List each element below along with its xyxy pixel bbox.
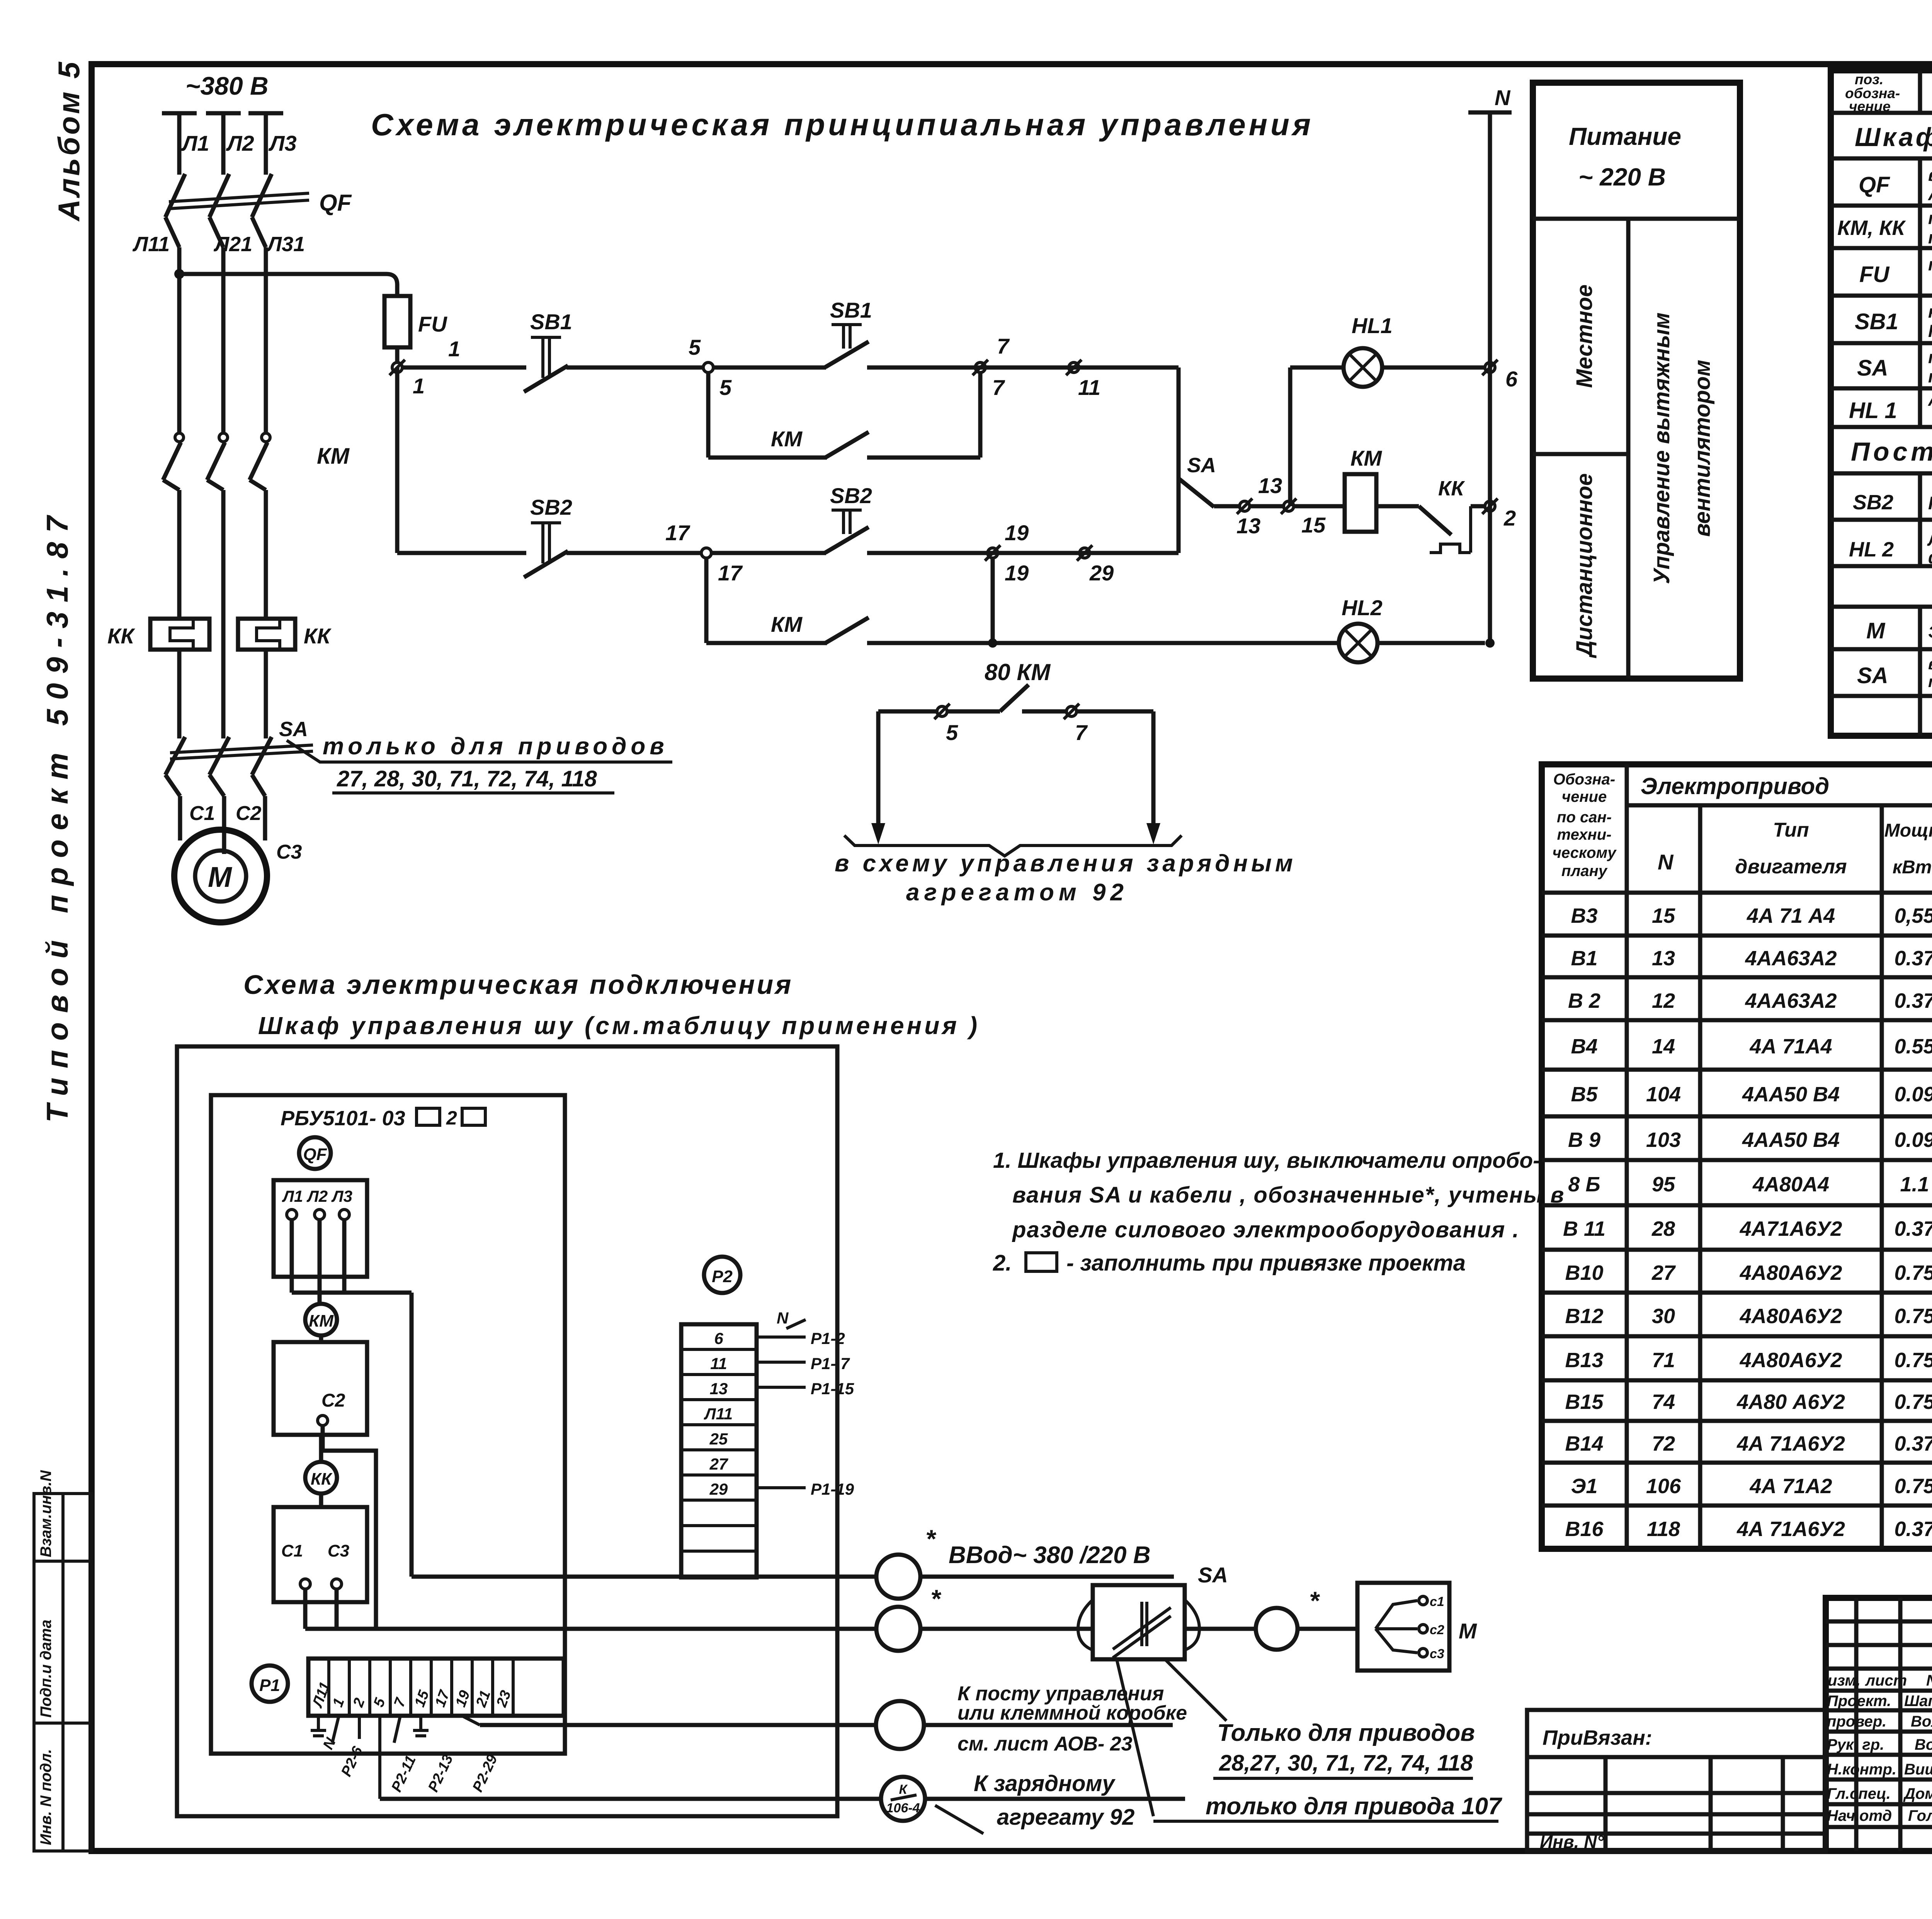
svg-text:В5: В5 <box>1571 1083 1598 1106</box>
svg-text:SA: SA <box>1857 356 1888 381</box>
svg-text:Тип: Тип <box>1773 819 1809 841</box>
svg-text:С1: С1 <box>281 1541 303 1560</box>
svg-text:29: 29 <box>1089 561 1114 585</box>
data col motor type <box>1736 904 1845 1541</box>
svg-text:HL1: HL1 <box>1352 313 1393 338</box>
svg-text:*: * <box>1309 1586 1320 1615</box>
svg-text:4А80А6У2: 4А80А6У2 <box>1740 1261 1842 1284</box>
svg-text:Л3: Л3 <box>268 131 297 155</box>
lamp HL2 <box>1339 624 1485 662</box>
svg-text:В3: В3 <box>1571 904 1597 927</box>
svg-text:4АА50 В4: 4АА50 В4 <box>1742 1083 1840 1106</box>
svg-text:КМ: КМ <box>309 1312 334 1330</box>
svg-text:тепловым реле типа ТРН-10(см.т: тепловым реле типа ТРН-10(см.табл. приме… <box>1928 228 1932 247</box>
svg-text:7: 7 <box>997 334 1010 358</box>
svg-text:1: 1 <box>448 337 460 361</box>
svg-text:4АА63А2: 4АА63А2 <box>1745 989 1837 1012</box>
svg-text:103: 103 <box>1646 1128 1681 1152</box>
svg-text:по сан-: по сан- <box>1557 809 1612 826</box>
svg-text:2: 2 <box>446 1107 457 1129</box>
charger circle K106-4 <box>881 1777 925 1821</box>
svg-text:N: N <box>1495 85 1511 110</box>
wire rail2 segment a <box>397 551 526 555</box>
svg-text:1. Шкафы управления шу, выкл: 1. Шкафы управления шу, выключатели опро… <box>993 1148 1540 1173</box>
node 1 <box>389 337 460 398</box>
neutral N line <box>1468 112 1512 648</box>
svg-text:Мощн.: Мощн. <box>1884 820 1932 841</box>
button SB1 start <box>825 325 869 367</box>
svg-text:кВт.: кВт. <box>1893 857 1932 878</box>
svg-text:В 9: В 9 <box>1568 1128 1600 1152</box>
post wire <box>924 1723 1173 1727</box>
button SB1 stop <box>524 337 568 392</box>
post circle <box>876 1701 924 1749</box>
svg-text:РБУ5101- 03: РБУ5101- 03 <box>281 1107 405 1130</box>
svg-text:КМ: КМ <box>1350 446 1382 470</box>
vvod circle 1 <box>876 1555 920 1599</box>
node 2 <box>1482 498 1516 530</box>
contact KM aux branch1 <box>708 373 980 458</box>
KM circle <box>305 1293 337 1342</box>
svg-text:13: 13 <box>1258 473 1282 498</box>
svg-text:4АА63А2: 4АА63А2 <box>1745 947 1837 970</box>
contact KM aux branch2 <box>706 558 1339 648</box>
svg-text:В15: В15 <box>1565 1390 1604 1414</box>
svg-text:SB1: SB1 <box>1855 309 1898 334</box>
svg-text:14: 14 <box>1652 1035 1675 1058</box>
svg-text:Р1-2: Р1-2 <box>811 1329 845 1347</box>
svg-text:вания SA и кабели , обозначе: вания SA и кабели , обозначенные*, учтен… <box>1012 1182 1565 1208</box>
row SA mesto <box>1857 653 1932 691</box>
data col power <box>1894 904 1932 1541</box>
svg-text:13: 13 <box>710 1380 728 1398</box>
svg-text:0.37: 0.37 <box>1894 1518 1932 1541</box>
svg-text:С3: С3 <box>328 1541 349 1560</box>
svg-text:11: 11 <box>1078 375 1100 400</box>
svg-text:С2: С2 <box>236 802 262 825</box>
svg-text:В10: В10 <box>1565 1261 1603 1284</box>
vvod wire and label <box>412 1524 1174 1577</box>
application table grid <box>1542 764 1932 1549</box>
svg-text:19: 19 <box>1005 521 1029 545</box>
node 5 <box>689 335 732 400</box>
contactor KM main contacts <box>163 433 270 738</box>
lamp HL1 branch <box>1290 367 1344 506</box>
svg-text:Подп.и дата: Подп.и дата <box>37 1620 54 1718</box>
svg-text:Р2: Р2 <box>712 1267 733 1286</box>
svg-text:~ 220 В: ~ 220 В <box>1578 163 1666 191</box>
svg-text:SB2: SB2 <box>1853 491 1893 514</box>
data col N <box>1646 904 1681 1541</box>
svg-text:Схема электрическая подключе: Схема электрическая подключения <box>243 970 793 1000</box>
wire rail1 segment b <box>566 366 703 370</box>
svg-text:25: 25 <box>709 1430 728 1448</box>
svg-text:в схему управления зарядным: в схему управления зарядным <box>835 850 1296 877</box>
button SB2 stop <box>524 523 568 577</box>
svg-text:QF: QF <box>1859 172 1890 197</box>
svg-text:0.37: 0.37 <box>1894 1432 1932 1455</box>
wire phase to SA box <box>305 1627 1093 1631</box>
node 29 <box>1077 545 1114 585</box>
subcircuit brace <box>844 835 1182 856</box>
component table grid <box>1831 70 1932 736</box>
svg-text:1: 1 <box>413 374 425 398</box>
svg-text:4А80А6У2: 4А80А6У2 <box>1740 1305 1842 1328</box>
svg-text:SB2: SB2 <box>530 495 572 519</box>
svg-text:КМ: КМ <box>317 444 350 469</box>
node 17 <box>665 521 743 585</box>
svg-text:Л31: Л31 <box>266 233 305 256</box>
node 13 <box>1236 473 1282 538</box>
svg-text:11: 11 <box>710 1354 727 1373</box>
svg-text:чение: чение <box>1562 788 1607 805</box>
row HL1 <box>1849 390 1932 427</box>
svg-text:К зарядному: К зарядному <box>974 1771 1116 1796</box>
svg-text:4А80 А6У2: 4А80 А6У2 <box>1736 1390 1845 1414</box>
svg-text:Л1: Л1 <box>181 131 209 155</box>
P2 strip stubs <box>757 1309 854 1498</box>
svg-text:Э1: Э1 <box>1571 1475 1598 1498</box>
svg-text:4А80А4: 4А80А4 <box>1752 1173 1829 1196</box>
node 6 <box>1482 360 1518 391</box>
svg-text:В1: В1 <box>1571 947 1597 970</box>
svg-text:Р1-19: Р1-19 <box>811 1480 854 1498</box>
thermal relay KK heater left <box>150 619 209 738</box>
svg-text:В13: В13 <box>1565 1349 1603 1372</box>
svg-text:HL 1: HL 1 <box>1849 398 1897 423</box>
svg-text:Кнопка управления типа КУ, б.: Кнопка управления типа КУ, б.к 1з+ 1р <box>1928 493 1932 513</box>
svg-text:АП50-3МТ (см. таблицу применен: АП50-3МТ (см. таблицу применения ) <box>1928 184 1932 204</box>
svg-text:72: 72 <box>1652 1432 1675 1455</box>
svg-text:SB1: SB1 <box>830 298 872 322</box>
svg-text:Л21: Л21 <box>213 233 252 256</box>
svg-text:95: 95 <box>1652 1173 1675 1196</box>
svg-text:с3: с3 <box>1430 1647 1444 1661</box>
svg-text:КК: КК <box>311 1470 333 1489</box>
svg-text:только для приводов: только для приводов <box>323 733 668 760</box>
svg-text:~380 В: ~380 В <box>185 71 269 100</box>
svg-text:SB1: SB1 <box>530 310 572 334</box>
svg-text:FU: FU <box>1859 262 1890 287</box>
svg-text:N: N <box>1658 850 1674 874</box>
svg-text:0.75: 0.75 <box>1894 1349 1932 1372</box>
svg-text:В14: В14 <box>1565 1432 1603 1455</box>
svg-text:Нач.отд: Нач.отд <box>1827 1807 1892 1824</box>
svg-text:Пост управления пс/ см. табл: Пост управления пс/ см. таблицу применен… <box>1851 437 1932 466</box>
button SB2 start <box>825 510 869 553</box>
leader from SA box <box>1165 1659 1226 1721</box>
charger leader <box>935 1805 983 1834</box>
svg-text:Питание: Питание <box>1569 122 1681 150</box>
wire feed to control circuit <box>174 269 397 296</box>
svg-text:С2: С2 <box>321 1390 345 1411</box>
svg-text:SB2: SB2 <box>830 483 872 508</box>
svg-text:2.: 2. <box>993 1250 1012 1276</box>
svg-text:Альбом 5: Альбом 5 <box>52 60 86 222</box>
left vertical rail join <box>395 367 400 553</box>
svg-text:агрегату 92: агрегату 92 <box>997 1805 1134 1830</box>
terminal box L1L2L3 <box>274 1180 412 1293</box>
pitanie box <box>1533 83 1740 679</box>
svg-text:КК: КК <box>304 624 332 648</box>
svg-text:15: 15 <box>1301 513 1326 537</box>
lamp HL1 <box>1344 348 1485 387</box>
svg-text:Шкаф управления шу (см.таблицу: Шкаф управления шу (см.таблицу применени… <box>258 1012 980 1039</box>
motor connection box M <box>1357 1583 1477 1671</box>
charger wire <box>925 1797 1185 1801</box>
svg-text:4А 71А6У2: 4А 71А6У2 <box>1736 1432 1845 1455</box>
svg-text:7: 7 <box>1075 720 1088 745</box>
svg-text:4А71А6У2: 4А71А6У2 <box>1740 1217 1842 1240</box>
svg-text:5: 5 <box>689 335 701 359</box>
svg-text:*: * <box>925 1524 937 1553</box>
svg-text:0.09: 0.09 <box>1894 1128 1932 1152</box>
svg-text:Гл.спец.: Гл.спец. <box>1827 1785 1891 1802</box>
svg-text:13: 13 <box>1236 514 1260 538</box>
switch SA box <box>1078 1585 1199 1659</box>
svg-text:Инв. N подл.: Инв. N подл. <box>37 1749 54 1845</box>
title block outer <box>1826 1598 1932 1851</box>
wire rail2 segment b <box>566 551 701 555</box>
svg-text:В 2: В 2 <box>1568 989 1600 1012</box>
row FU <box>1859 255 1932 294</box>
svg-text:Голодник: Голодник <box>1908 1807 1932 1824</box>
svg-text:4А 71А4: 4А 71А4 <box>1749 1035 1832 1058</box>
svg-text:Взам.инв.N: Взам.инв.N <box>37 1470 54 1557</box>
right loop vertical <box>1177 367 1181 553</box>
svg-text:с1: с1 <box>1430 1594 1444 1609</box>
wire rail1 segment d <box>867 366 1179 370</box>
svg-text:19: 19 <box>1005 561 1029 585</box>
switch SA power blades <box>165 737 313 854</box>
privyazan box <box>1527 1710 1826 1851</box>
application table row lines group A <box>1542 936 1932 1506</box>
svg-text:6: 6 <box>1505 367 1518 391</box>
svg-text:80 КМ: 80 КМ <box>985 659 1051 685</box>
svg-text:Шкаф управления ШУ (см. та: Шкаф управления ШУ (см. таблицу применен… <box>1855 122 1932 152</box>
subcircuit arrows down <box>871 711 1160 844</box>
svg-text:28,27, 30, 71, 72, 74, 118: 28,27, 30, 71, 72, 74, 118 <box>1219 1751 1473 1776</box>
wire to post circle <box>480 1723 876 1727</box>
box C1 C3 <box>274 1507 367 1629</box>
data col obozn <box>1563 904 1605 1541</box>
svg-text:SA: SA <box>1857 663 1888 688</box>
row SB1 <box>1855 302 1932 341</box>
svg-text:8 Б: 8 Б <box>1568 1173 1600 1196</box>
svg-text:SA: SA <box>1198 1563 1228 1587</box>
svg-text:Электродвигатель(см.таблицу пр: Электродвигатель(см.таблицу применения <box>1928 623 1932 641</box>
svg-text:К: К <box>899 1782 908 1797</box>
svg-text:Волкова: Волкова <box>1915 1736 1932 1753</box>
svg-text:28: 28 <box>1651 1217 1675 1240</box>
contact KK thermal <box>1419 506 1485 553</box>
svg-text:0.55: 0.55 <box>1894 1035 1932 1058</box>
svg-text:па УП 5312 - С86: па УП 5312 - С86 <box>1928 367 1932 386</box>
svg-text:М: М <box>1459 1619 1477 1643</box>
svg-text:27: 27 <box>709 1455 728 1473</box>
svg-text:В16: В16 <box>1565 1518 1604 1541</box>
svg-text:разделе силового электрообо: разделе силового электрооборудования . <box>1012 1217 1520 1242</box>
thermal relay KK heater right <box>238 619 295 738</box>
svg-text:плану: плану <box>1561 863 1608 880</box>
leader diagonal 107 <box>1117 1659 1153 1816</box>
svg-text:HL2: HL2 <box>1342 595 1383 620</box>
wire 13-15 <box>1250 504 1284 509</box>
svg-text:С3: С3 <box>276 841 302 863</box>
svg-text:лист: лист <box>1865 1672 1907 1689</box>
svg-text:ВВод~ 380 /220 В: ВВод~ 380 /220 В <box>949 1542 1151 1569</box>
svg-text:*: * <box>930 1584 942 1613</box>
svg-text:провер.: провер. <box>1827 1713 1886 1730</box>
fuse FU <box>384 296 410 363</box>
QF circle <box>299 1137 331 1169</box>
svg-text:Р1-15: Р1-15 <box>811 1380 854 1398</box>
svg-text:Обозна-: Обозна- <box>1553 771 1615 788</box>
svg-text:КК: КК <box>1438 477 1465 500</box>
phase line L3 <box>248 113 283 433</box>
svg-text:КЕ -011 У3, исполнение 2: КЕ -011 У3, исполнение 2 <box>1928 321 1932 341</box>
svg-text:N докум.: N докум. <box>1926 1672 1932 1689</box>
svg-text:SA: SA <box>1187 454 1216 477</box>
svg-text:Домбровский: Домбровский <box>1903 1785 1932 1802</box>
motor M <box>174 830 267 922</box>
wire rail1 segment a <box>402 366 526 370</box>
svg-text:12: 12 <box>1652 989 1675 1012</box>
P2 terminal strip <box>681 1324 757 1577</box>
svg-text:выключатель пакетный 3*полюс: выключатель пакетный 3*полюсный <box>1928 655 1932 673</box>
svg-text:17: 17 <box>665 521 690 545</box>
P2 circle <box>704 1257 740 1293</box>
svg-text:SA: SA <box>279 718 308 741</box>
svg-text:Р1: Р1 <box>259 1676 280 1695</box>
svg-text:см. лист АОВ- 23: см. лист АОВ- 23 <box>957 1733 1133 1755</box>
header col1 <box>1553 771 1617 880</box>
svg-text:6: 6 <box>714 1329 723 1347</box>
svg-text:кнопка управления типа: кнопка управления типа <box>1928 302 1932 322</box>
svg-text:4А 71А2: 4А 71А2 <box>1749 1475 1832 1498</box>
svg-text:Схема электрическая принципи: Схема электрическая принципиальная управ… <box>371 107 1314 142</box>
svg-text:ческому: ческому <box>1553 844 1617 861</box>
P1 circle <box>252 1666 288 1702</box>
breaker QF trip bar <box>169 193 309 209</box>
svg-text:13: 13 <box>1652 947 1675 970</box>
svg-text:4А80А6У2: 4А80А6У2 <box>1740 1349 1842 1372</box>
svg-text:Л11: Л11 <box>132 233 170 256</box>
svg-text:5: 5 <box>719 375 732 400</box>
svg-text:17: 17 <box>718 561 743 585</box>
svg-text:типа ПВ3-10, степень защиты: типа ПВ3-10, степень защиты Iр56 <box>1928 672 1932 691</box>
svg-text:форматором ~ 220/24В: форматором ~ 220/24В <box>1928 548 1932 567</box>
svg-text:106-4: 106-4 <box>886 1801 920 1815</box>
svg-text:15: 15 <box>1652 904 1675 927</box>
svg-text:1.1: 1.1 <box>1900 1173 1929 1196</box>
cabinet outer box <box>177 1046 837 1816</box>
svg-text:чение: чение <box>1849 99 1891 114</box>
wire rail2 segment c <box>711 551 826 555</box>
svg-text:0.37: 0.37 <box>1894 947 1932 970</box>
svg-text:С1: С1 <box>189 802 215 825</box>
row M <box>1866 613 1932 649</box>
svg-text:QF: QF <box>319 190 352 216</box>
svg-text:5: 5 <box>946 720 958 745</box>
svg-text:с2: с2 <box>1430 1623 1444 1637</box>
svg-text:КМ: КМ <box>771 427 803 451</box>
KK circle <box>305 1435 337 1507</box>
svg-text:74: 74 <box>1652 1390 1675 1414</box>
svg-text:0.75: 0.75 <box>1894 1305 1932 1328</box>
svg-text:КК: КК <box>107 624 135 648</box>
leader to note <box>287 740 672 762</box>
svg-text:- заполнить при привязке пр: - заполнить при привязке проекта <box>1066 1250 1466 1276</box>
svg-text:Шапошникова: Шапошникова <box>1904 1693 1932 1710</box>
svg-text:27: 27 <box>1651 1261 1676 1284</box>
svg-text:FU: FU <box>418 312 447 336</box>
wire SA to motor circle <box>1185 1586 1357 1650</box>
box C2 <box>274 1342 367 1435</box>
svg-text:М: М <box>208 861 232 893</box>
svg-text:выключатель автоматический т: выключатель автоматический типа <box>1928 165 1932 185</box>
svg-text:HL 2: HL 2 <box>1849 538 1894 561</box>
P1 strip wire stubs <box>332 1716 480 1799</box>
P1 strip ground stubs <box>311 1716 429 1736</box>
row QF <box>1859 165 1932 204</box>
header poz <box>1845 71 1900 114</box>
svg-text:27, 28, 30, 71, 72, 74, 118: 27, 28, 30, 71, 72, 74, 118 <box>337 766 597 791</box>
svg-text:0.75: 0.75 <box>1894 1475 1932 1498</box>
svg-text:Арматура сигнальная типа: Арматура сигнальная типа <box>1928 390 1932 410</box>
svg-text:Электропривод: Электропривод <box>1641 773 1830 799</box>
title block signature texts <box>1827 1672 1932 1824</box>
svg-text:Волкова: Волкова <box>1911 1713 1932 1730</box>
row HL2 <box>1849 529 1932 567</box>
wire 15 to KM coil <box>1294 504 1345 509</box>
svg-text:N: N <box>777 1309 789 1327</box>
svg-text:0.37: 0.37 <box>1894 989 1932 1012</box>
subcircuit 80 KM wires <box>878 685 1153 745</box>
svg-text:QF: QF <box>303 1145 327 1164</box>
svg-text:Рук. гр.: Рук. гр. <box>1827 1736 1884 1753</box>
wire rail1 segment c <box>713 366 826 370</box>
svg-text:ПриВязан:: ПриВязан: <box>1543 1726 1652 1749</box>
svg-text:Местное: Местное <box>1572 284 1597 388</box>
svg-text:изм.: изм. <box>1828 1672 1861 1689</box>
node 19 <box>985 521 1029 585</box>
svg-text:двигателя: двигателя <box>1735 856 1847 878</box>
P1 stub labels rotated <box>320 1735 501 1795</box>
wire C2 down <box>323 1426 376 1629</box>
svg-text:пускатель магнитный типа ПМ: пускатель магнитный типа ПМЕ-111 с <box>1928 208 1932 228</box>
svg-text:4А 71 А4: 4А 71 А4 <box>1747 904 1835 927</box>
phase line L2 <box>206 113 241 433</box>
node 7 <box>973 334 1010 400</box>
svg-text:техни-: техни- <box>1557 826 1612 843</box>
svg-text:вентилятором: вентилятором <box>1690 360 1715 537</box>
svg-text:71: 71 <box>1652 1349 1675 1372</box>
row KM KK <box>1837 208 1932 247</box>
svg-text:В 11: В 11 <box>1563 1217 1605 1240</box>
svg-text:Типовой проект 509-31.87: Типовой проект 509-31.87 <box>40 507 74 1123</box>
svg-text:Л2: Л2 <box>226 131 254 155</box>
svg-text:Инв. N°: Инв. N° <box>1540 1832 1604 1852</box>
svg-text:Р1- 7: Р1- 7 <box>811 1354 850 1373</box>
svg-text:Проект.: Проект. <box>1827 1693 1891 1710</box>
svg-text:В4: В4 <box>1571 1035 1597 1058</box>
svg-text:104: 104 <box>1646 1083 1681 1106</box>
svg-text:Л1 Л2 Л3: Л1 Л2 Л3 <box>282 1187 352 1205</box>
svg-text:4АА50 В4: 4АА50 В4 <box>1742 1128 1840 1152</box>
svg-text:агрегатом 92: агрегатом 92 <box>906 879 1128 906</box>
svg-text:Управление вытяжным: Управление вытяжным <box>1649 313 1674 584</box>
